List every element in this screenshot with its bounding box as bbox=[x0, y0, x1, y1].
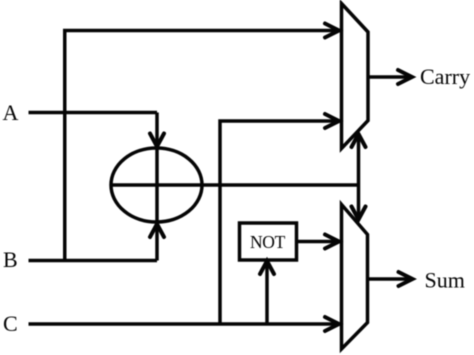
arrowhead: Carry output bbox=[398, 70, 412, 84]
wire: vertical through XOR (A down / B up, x=157) bbox=[155, 113, 159, 261]
XOR gate U1 (circle-plus, A xor B) bbox=[111, 148, 202, 222]
arrowhead: C up into NOT bbox=[260, 261, 274, 274]
arrowhead: NOT output into Sum-mux in0 bbox=[325, 235, 339, 249]
arrowhead: A into XOR top (down) bbox=[150, 134, 164, 147]
wire: select column x=358.5 feeding both mux selects bbox=[357, 135, 361, 218]
mux U2 (Carry multiplexer, trapezoid) bbox=[342, 4, 369, 149]
wire: input C lead (y=324) to Sum-mux input 1 bbox=[29, 322, 339, 326]
wire: XOR horizontal bar / output net S (y=185) to select column bbox=[111, 183, 359, 187]
wire: Sum output lead (y=279) bbox=[368, 277, 412, 281]
svg-text:Carry: Carry bbox=[420, 64, 470, 89]
arrowhead: B into XOR bottom (up) bbox=[150, 224, 164, 237]
svg-text:NOT: NOT bbox=[250, 232, 286, 252]
wire: input B lead (y=260.5) bbox=[29, 259, 158, 263]
wire: C branch up into NOT (vertical x=267) bbox=[265, 261, 269, 324]
arrowhead: select up into Carry-mux bbox=[352, 134, 366, 147]
wire: net B branch to Carry-mux input 0 (vertical x=65 + top rail y=31) bbox=[65, 31, 338, 261]
arrowhead: C rail into Carry-mux in1 bbox=[325, 114, 339, 128]
mux U3 (Sum multiplexer, trapezoid) bbox=[342, 205, 368, 350]
arrowhead: select down into Sum-mux bbox=[352, 207, 366, 220]
svg-text:A: A bbox=[3, 100, 19, 125]
svg-text:Sum: Sum bbox=[425, 268, 465, 293]
wire: Carry output lead (y=77) bbox=[368, 75, 411, 79]
arrowhead: B rail into Carry-mux in0 bbox=[325, 24, 339, 38]
NOT gate U4 (box) bbox=[240, 223, 297, 260]
wire: NOT output to Sum-mux input 0 (y=240.5) bbox=[297, 240, 340, 244]
arrowhead: Sum output bbox=[399, 272, 413, 286]
arrowhead: C into Sum-mux in1 bbox=[325, 317, 339, 331]
svg-text:B: B bbox=[3, 247, 18, 272]
wire: input A lead (y=113) turning down into XOR top bbox=[29, 111, 158, 115]
svg-text:C: C bbox=[3, 311, 18, 336]
wire: C branch up to Carry-mux input 1 (vertical x=220, rail y=121) bbox=[220, 121, 338, 324]
